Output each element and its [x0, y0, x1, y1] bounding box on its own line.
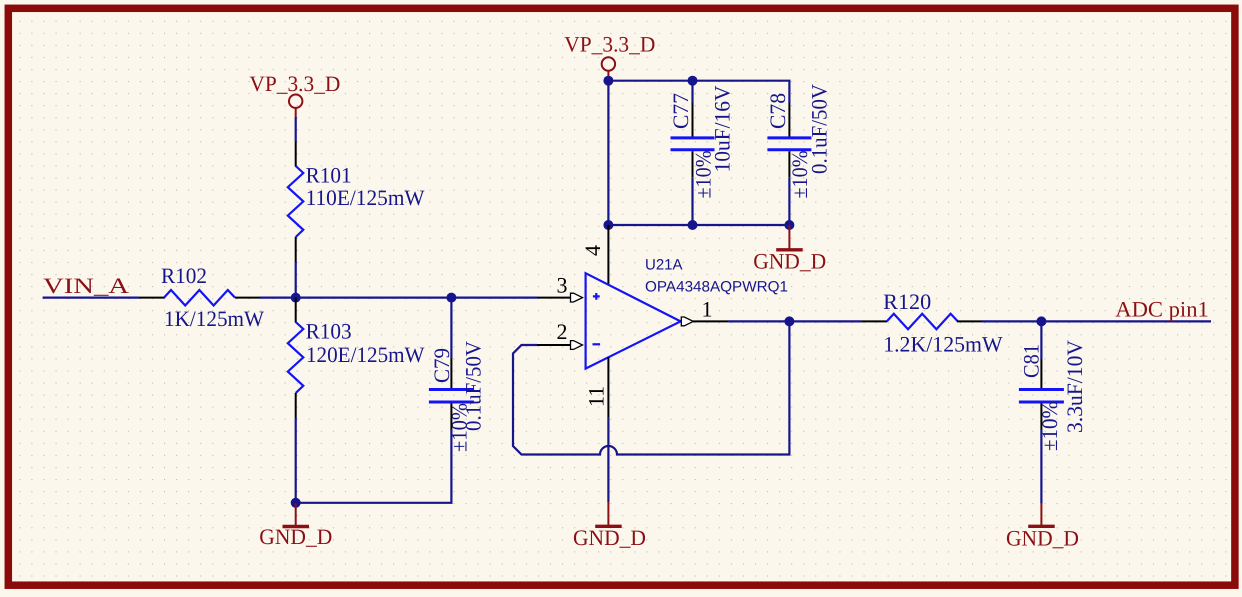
op-amp pin 1 output	[693, 320, 728, 322]
resistor R120 pin right	[957, 320, 982, 322]
wire node A to node B	[296, 297, 452, 299]
svg-text:GND_D: GND_D	[1006, 526, 1079, 551]
junction ground node	[291, 498, 301, 508]
wire C79 top	[450, 298, 452, 358]
resistor R1 pin top (R101)	[295, 142, 297, 167]
svg-text:GND_D: GND_D	[259, 524, 332, 549]
ground GND_D (left)	[283, 503, 310, 527]
svg-text:4: 4	[580, 245, 605, 256]
wire C77 top	[691, 81, 693, 103]
resistor R120	[887, 314, 958, 330]
capacitor C79 pin top	[450, 358, 452, 388]
wire VP column down	[607, 81, 609, 225]
pin 1 arrow	[681, 317, 693, 326]
svg-text:0.1uF/50V: 0.1uF/50V	[461, 341, 486, 431]
svg-text:R120: R120	[883, 289, 931, 314]
svg-text:3: 3	[557, 273, 568, 298]
svg-text:C79: C79	[429, 348, 454, 383]
svg-text:1.2K/125mW: 1.2K/125mW	[883, 332, 1003, 357]
wire C81 top	[1040, 321, 1042, 359]
power port VP_3.3_D (top)	[602, 57, 615, 79]
op-amp pin 3	[537, 297, 571, 299]
capacitor C77 pin bottom	[692, 151, 694, 177]
svg-text:ADC pin1: ADC pin1	[1115, 296, 1209, 321]
resistor R102 pin left	[139, 297, 165, 299]
svg-text:10uF/16V: 10uF/16V	[710, 85, 735, 172]
svg-text:C81: C81	[1019, 344, 1044, 378]
wire node D to ADC pin1	[1041, 320, 1211, 322]
svg-text:VP_3.3_D: VP_3.3_D	[564, 32, 655, 57]
svg-text:U21A: U21A	[645, 257, 683, 274]
capacitor C81 pin top	[1040, 359, 1042, 388]
capacitor C81 pin bottom	[1040, 404, 1042, 430]
wire R120 to node D	[982, 320, 1041, 322]
wire C77 bottom	[691, 177, 693, 225]
junction bottom rail left	[603, 220, 613, 230]
wire R103 to ground node	[295, 418, 297, 503]
junction node C	[784, 316, 794, 326]
svg-text:1: 1	[702, 296, 713, 321]
wire C81 to ground	[1040, 430, 1042, 504]
wire C79 to ground wire	[296, 430, 452, 503]
svg-text:110E/125mW: 110E/125mW	[306, 185, 425, 210]
capacitor C77 pin top	[692, 103, 694, 137]
capacitor C78	[767, 138, 811, 150]
junction node A	[291, 293, 301, 303]
ground GND_D (middle)	[595, 502, 622, 527]
capacitor C79 pin bottom	[450, 404, 452, 430]
wire output to node C	[728, 320, 789, 322]
svg-text:GND_D: GND_D	[753, 248, 826, 273]
wire node C to R120	[789, 320, 862, 322]
resistor R102	[164, 290, 235, 306]
wire bottom rail	[608, 224, 789, 226]
resistor R103 pin top	[295, 298, 297, 323]
junction top rail C77	[688, 76, 698, 86]
capacitor C78 pin top	[788, 103, 790, 137]
junction bottom rail C77	[688, 220, 698, 230]
wire R101 to node	[295, 262, 297, 298]
svg-text:1K/125mW: 1K/125mW	[164, 306, 264, 331]
wire VIN_A	[43, 297, 139, 299]
resistor R103 pin bottom	[295, 393, 297, 418]
wire node B to op-amp pin 3	[451, 297, 537, 299]
svg-text:C77: C77	[668, 93, 693, 129]
junction node D	[1036, 316, 1046, 326]
svg-text:R103: R103	[306, 318, 352, 343]
svg-text:11: 11	[584, 386, 609, 407]
wire VP to R101	[295, 117, 297, 142]
svg-text:VP_3.3_D: VP_3.3_D	[249, 71, 340, 96]
op-amp U1 pin 4	[607, 225, 609, 285]
feedback wire pin2 to output	[513, 321, 789, 454]
svg-text:GND_D: GND_D	[573, 525, 646, 550]
pin 3 arrow	[571, 293, 583, 302]
capacitor C78 pin bottom	[788, 151, 790, 177]
wire pin 11 to ground	[607, 417, 609, 502]
ground GND_D (top)	[776, 225, 803, 250]
power port VP_3.3_D (left)	[289, 95, 302, 118]
pin 2 arrow	[571, 341, 583, 350]
junction top rail left	[603, 76, 613, 86]
svg-text:R101: R101	[306, 163, 352, 188]
capacitor C77	[671, 138, 715, 150]
op-amp plus sign	[593, 293, 600, 300]
capacitor C79	[429, 390, 474, 403]
svg-text:2: 2	[557, 319, 568, 344]
resistor R120 pin left	[862, 320, 887, 322]
ground GND_D (right)	[1028, 504, 1055, 527]
svg-text:OPA4348AQPWRQ1: OPA4348AQPWRQ1	[645, 279, 788, 296]
op-amp U21A triangle	[586, 273, 681, 368]
svg-text:R102: R102	[161, 263, 207, 288]
svg-text:C78: C78	[765, 93, 790, 129]
op-amp pin 2	[537, 344, 571, 346]
svg-text:0.1uF/50V: 0.1uF/50V	[807, 84, 832, 174]
wire R102 to node A	[260, 297, 296, 299]
wire C78 bottom	[788, 177, 790, 225]
resistor R101 pin bottom	[295, 237, 297, 262]
wire top rail	[608, 81, 789, 103]
svg-text:VIN_A: VIN_A	[43, 273, 129, 298]
junction bottom rail C78	[784, 220, 794, 230]
svg-text:3.3uF/10V: 3.3uF/10V	[1062, 340, 1087, 433]
resistor R101	[288, 166, 304, 237]
resistor R102 pin right	[235, 297, 260, 299]
capacitor C81	[1019, 390, 1064, 403]
svg-text:120E/125mW: 120E/125mW	[306, 342, 425, 367]
op-amp pin 11	[607, 357, 609, 417]
junction node B	[446, 293, 456, 303]
resistor R103	[288, 322, 304, 393]
op-amp minus sign	[593, 343, 601, 345]
